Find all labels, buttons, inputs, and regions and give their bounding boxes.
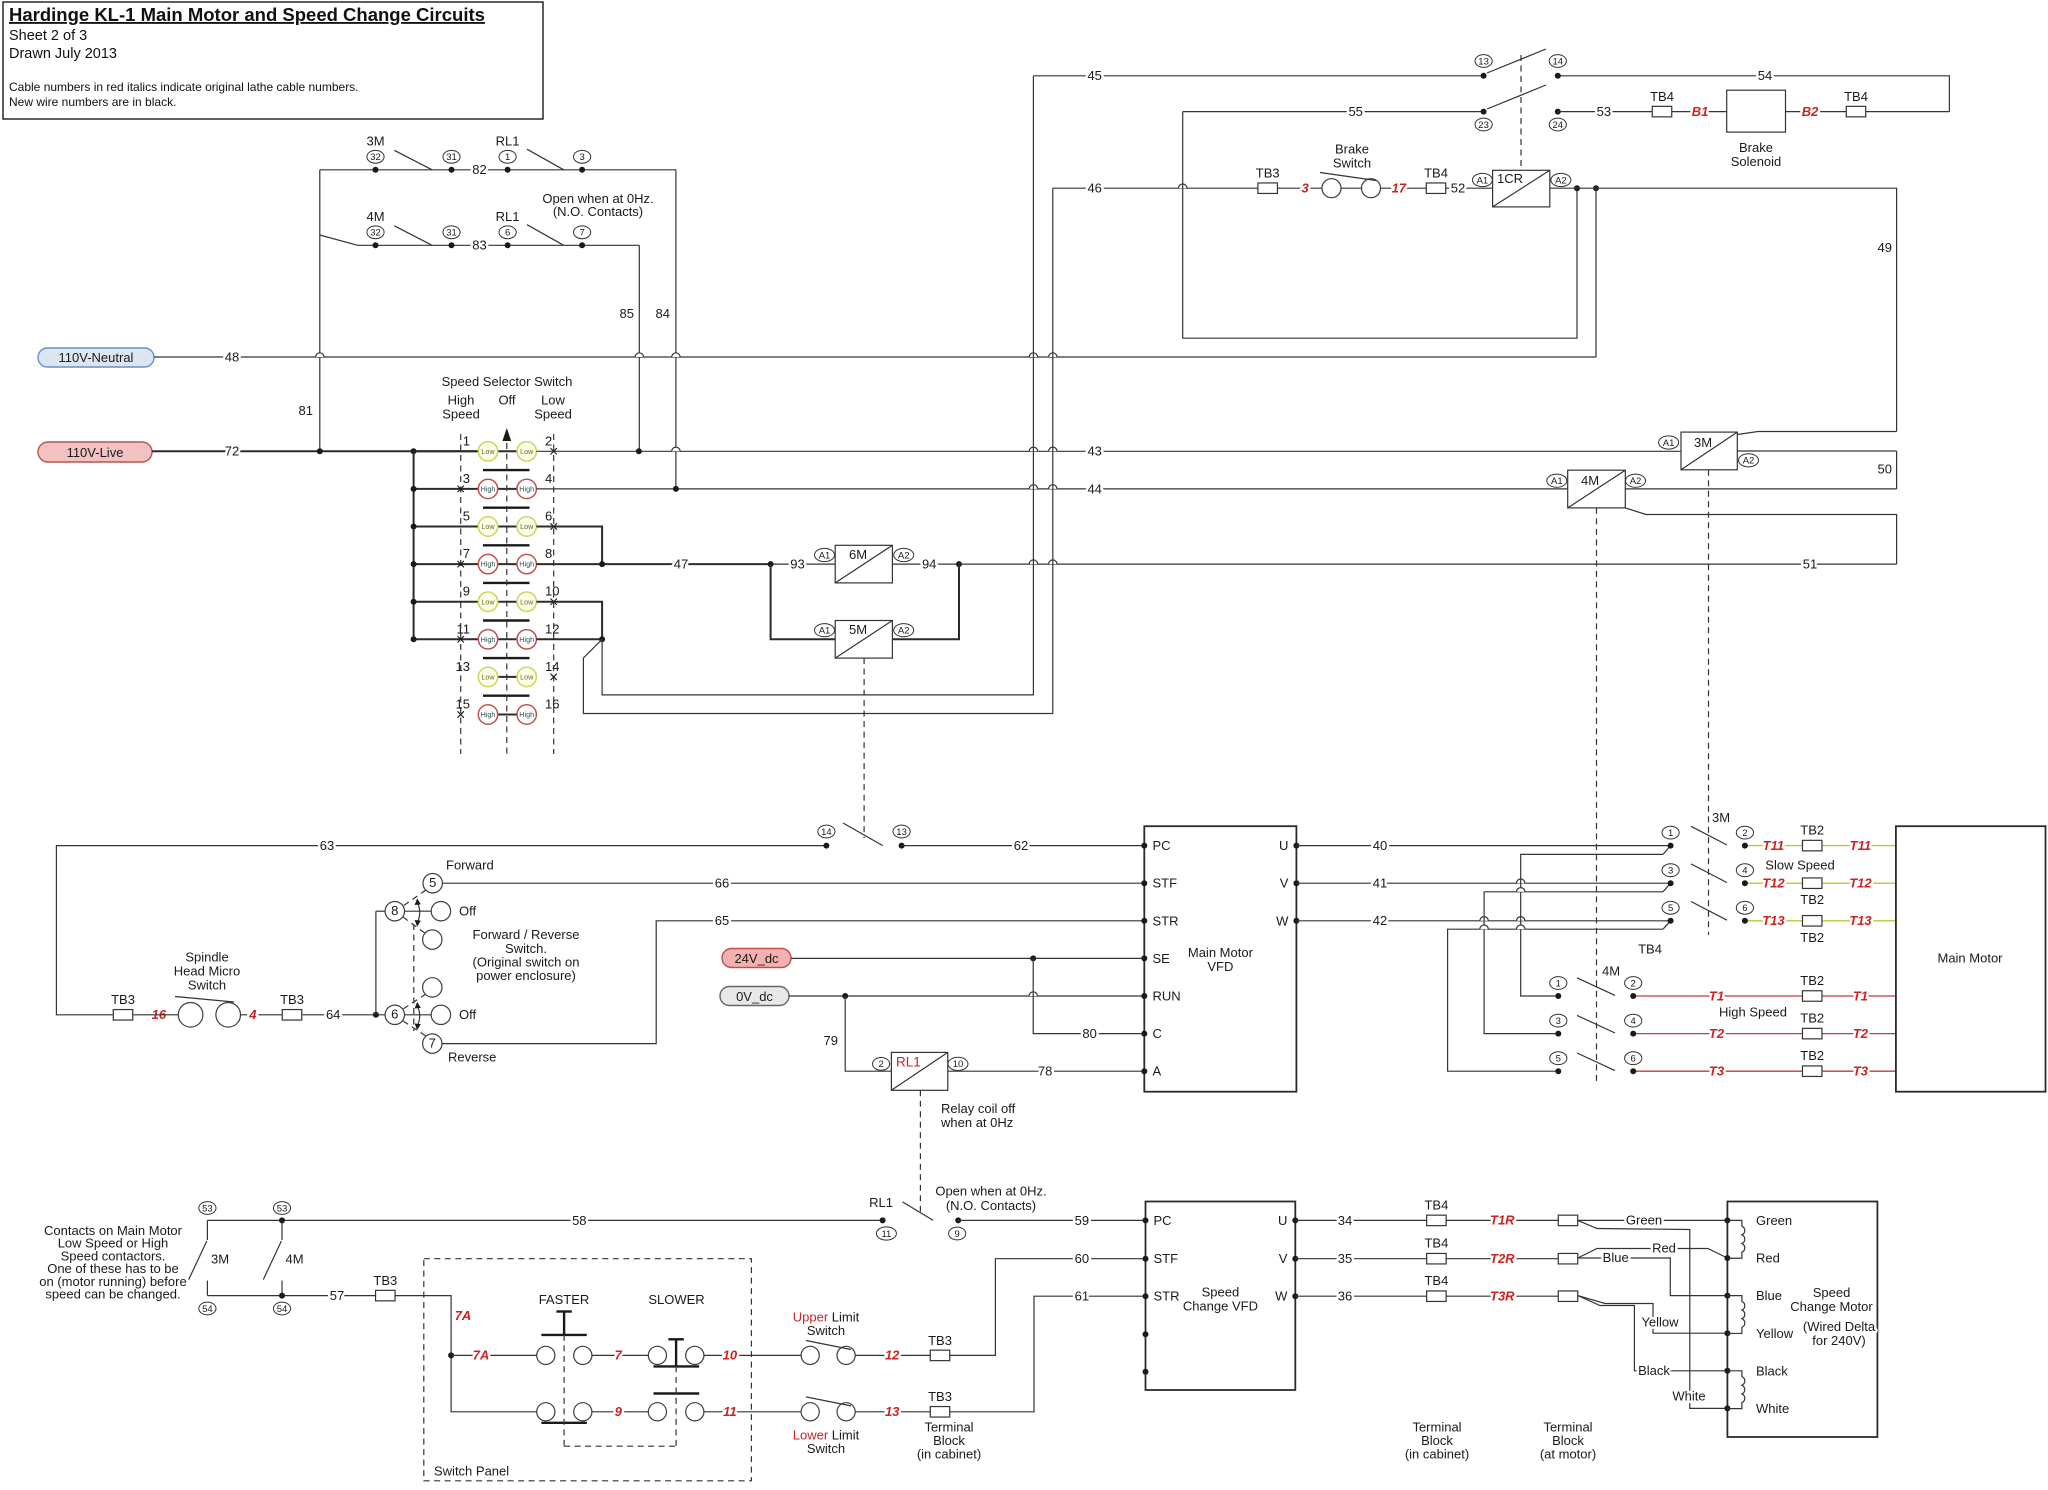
svg-text:Low: Low bbox=[520, 447, 534, 456]
wire 43 bbox=[536, 444, 1681, 459]
svg-text:High: High bbox=[481, 485, 496, 494]
svg-text:Speed: Speed bbox=[1202, 1285, 1240, 1300]
svg-text:62: 62 bbox=[1014, 838, 1028, 853]
svg-text:4M: 4M bbox=[1581, 473, 1599, 488]
wire 55 bbox=[1183, 104, 1484, 119]
svg-text:TB2: TB2 bbox=[1800, 973, 1824, 988]
cable 7A (to FASTER) bbox=[451, 1348, 537, 1363]
wire Green bbox=[1578, 1213, 1728, 1228]
svg-text:Blue: Blue bbox=[1756, 1288, 1782, 1303]
wire 4M A2 bbox=[1625, 488, 1896, 490]
contactor coil 5M + parallel loop bbox=[771, 564, 959, 658]
svg-text:U: U bbox=[1279, 838, 1288, 853]
svg-text:A: A bbox=[1153, 1064, 1162, 1079]
cable 13 bbox=[855, 1404, 930, 1419]
svg-text:4M: 4M bbox=[286, 1252, 304, 1267]
svg-text:54: 54 bbox=[277, 1304, 288, 1315]
wire Black bbox=[1578, 1296, 1728, 1378]
svg-text:Forward: Forward bbox=[446, 858, 494, 873]
wire 85 bbox=[620, 245, 640, 451]
1CR feedback loop bbox=[1183, 112, 1577, 339]
svg-text:STR: STR bbox=[1154, 1289, 1180, 1304]
contact 4M 5-6 bbox=[1550, 1052, 1642, 1074]
svg-text:32: 32 bbox=[370, 228, 381, 239]
svg-text:23: 23 bbox=[1478, 120, 1489, 131]
svg-text:110V-Neutral: 110V-Neutral bbox=[59, 350, 134, 365]
svg-text:10: 10 bbox=[545, 584, 559, 599]
svg-text:54: 54 bbox=[1758, 68, 1772, 83]
svg-text:T12: T12 bbox=[1849, 876, 1872, 891]
wire 61 riser bbox=[950, 1289, 1146, 1412]
svg-text:11: 11 bbox=[457, 621, 471, 636]
svg-text:TB4: TB4 bbox=[1638, 942, 1662, 957]
svg-text:80: 80 bbox=[1082, 1026, 1096, 1041]
terminal TB3 (upper limit) bbox=[928, 1333, 952, 1361]
svg-text:4: 4 bbox=[545, 471, 552, 486]
node 24V_dc bbox=[722, 949, 791, 968]
svg-text:(at motor): (at motor) bbox=[1540, 1447, 1596, 1462]
wire 41 bbox=[1296, 876, 1670, 891]
wire T1 (high speed) bbox=[1636, 988, 1896, 1003]
svg-text:11: 11 bbox=[723, 1404, 737, 1419]
wire 46 riser (to row12 node) bbox=[583, 188, 1052, 713]
svg-text:STF: STF bbox=[1154, 1251, 1179, 1266]
svg-text:TB2: TB2 bbox=[1800, 823, 1824, 838]
svg-text:54: 54 bbox=[202, 1304, 213, 1315]
node 0V_dc bbox=[720, 987, 789, 1006]
svg-text:Blue: Blue bbox=[1603, 1250, 1629, 1265]
wire 93 bbox=[768, 557, 836, 572]
wire SE bbox=[791, 955, 1144, 961]
svg-text:55: 55 bbox=[1348, 104, 1362, 119]
svg-text:A2: A2 bbox=[1630, 476, 1642, 487]
title block bbox=[3, 2, 543, 119]
svg-text:speed can be changed.: speed can be changed. bbox=[45, 1287, 180, 1302]
Speed Change Motor box bbox=[1724, 1202, 1877, 1438]
svg-text:V: V bbox=[1279, 1251, 1288, 1266]
contact RL1 (row 4M) bbox=[472, 209, 590, 253]
svg-text:RL1: RL1 bbox=[869, 1195, 893, 1210]
svg-text:T1: T1 bbox=[1853, 988, 1868, 1003]
contact 4M 1-2 bbox=[1550, 977, 1642, 999]
svg-text:STR: STR bbox=[1153, 913, 1179, 928]
selector contacts 3/4 (High) bbox=[411, 471, 553, 499]
spindle head micro switch bbox=[133, 950, 240, 1028]
svg-text:3: 3 bbox=[1668, 866, 1673, 877]
terminal TB2 (T12) bbox=[1800, 878, 1824, 907]
wire T11 (slow speed) bbox=[1748, 838, 1896, 853]
svg-text:TB4: TB4 bbox=[1844, 89, 1868, 104]
svg-text:Low: Low bbox=[481, 673, 495, 682]
svg-text:U: U bbox=[1278, 1213, 1287, 1228]
svg-text:Brake: Brake bbox=[1739, 140, 1773, 155]
svg-text:Forward / Reverse: Forward / Reverse bbox=[473, 927, 580, 942]
dashed RL1 actuator (down to lower contact) bbox=[919, 1090, 921, 1212]
wire 51 bbox=[959, 557, 1897, 572]
svg-text:T11: T11 bbox=[1850, 838, 1871, 853]
selector bridge bar bbox=[483, 657, 530, 659]
contact RL1 14-13 (PC line) bbox=[818, 823, 910, 849]
wire 48 riser to 1CR A2 bbox=[1595, 188, 1597, 357]
svg-text:15: 15 bbox=[456, 697, 470, 712]
svg-text:51: 51 bbox=[1803, 557, 1817, 572]
svg-text:14: 14 bbox=[821, 827, 832, 838]
cable T1R bbox=[1446, 1213, 1559, 1228]
selector bus vertical bbox=[413, 451, 415, 639]
svg-text:10: 10 bbox=[723, 1348, 738, 1363]
wire 44 bbox=[536, 481, 1567, 496]
terminal TB2 (T3) bbox=[1800, 1048, 1824, 1076]
contact 3M 3-4 bbox=[1662, 864, 1754, 886]
terminal TB3 (lower limit) bbox=[928, 1389, 952, 1417]
wire T3 (high speed) bbox=[1636, 1064, 1896, 1079]
svg-text:Spindle: Spindle bbox=[185, 950, 228, 965]
svg-text:1: 1 bbox=[463, 433, 470, 448]
svg-text:110V-Live: 110V-Live bbox=[67, 445, 124, 460]
svg-text:36: 36 bbox=[1338, 1289, 1352, 1304]
stub W to 4M-5 bbox=[1448, 921, 1671, 1071]
svg-text:A1: A1 bbox=[1477, 175, 1489, 186]
terminal TB4 (T1R) bbox=[1424, 1197, 1448, 1225]
cable T2R bbox=[1446, 1251, 1559, 1266]
svg-text:5M: 5M bbox=[849, 622, 867, 637]
svg-text:White: White bbox=[1672, 1389, 1705, 1404]
svg-text:A1: A1 bbox=[1663, 438, 1675, 449]
svg-text:Switch: Switch bbox=[807, 1323, 845, 1338]
wire 72 (110V-Live) bbox=[152, 444, 478, 459]
svg-text:TB4: TB4 bbox=[1650, 89, 1674, 104]
wire 54 bbox=[1558, 68, 1950, 111]
cable T3R bbox=[1446, 1289, 1559, 1304]
svg-text:(in cabinet): (in cabinet) bbox=[1405, 1447, 1469, 1462]
svg-text:52: 52 bbox=[1451, 180, 1465, 195]
svg-text:TB2: TB2 bbox=[1800, 1011, 1824, 1026]
svg-text:10: 10 bbox=[953, 1059, 964, 1070]
svg-text:85: 85 bbox=[620, 306, 634, 321]
FR switch note bbox=[473, 927, 580, 983]
wire Blue bbox=[1578, 1250, 1728, 1295]
svg-text:45: 45 bbox=[1087, 68, 1101, 83]
svg-text:24: 24 bbox=[1553, 120, 1564, 131]
svg-text:82: 82 bbox=[472, 162, 486, 177]
pushbutton FASTER (N.C. bottom) bbox=[537, 1403, 592, 1423]
svg-text:13: 13 bbox=[1478, 56, 1489, 67]
svg-text:31: 31 bbox=[446, 152, 457, 163]
wire row11-12 junction bbox=[536, 636, 605, 642]
wire White bbox=[1578, 1220, 1728, 1408]
wire 4M bottom to 51 bbox=[1625, 508, 1896, 564]
svg-text:7A: 7A bbox=[455, 1308, 472, 1323]
svg-text:High Speed: High Speed bbox=[1719, 1005, 1787, 1020]
svg-text:RL1: RL1 bbox=[496, 133, 520, 148]
terminal TB3 (spindle left) bbox=[111, 992, 135, 1020]
cable 7 bbox=[592, 1348, 648, 1363]
stub U to 4M-1 bbox=[1521, 846, 1671, 996]
svg-text:12: 12 bbox=[545, 621, 559, 636]
svg-text:W: W bbox=[1276, 913, 1289, 928]
svg-text:A1: A1 bbox=[1551, 476, 1563, 487]
svg-text:Black: Black bbox=[1756, 1363, 1788, 1378]
svg-text:FASTER: FASTER bbox=[539, 1292, 590, 1307]
motor winding 1 bbox=[1727, 1220, 1744, 1258]
wire 79 bbox=[824, 996, 892, 1071]
cable 10 bbox=[704, 1348, 801, 1363]
left bus vertical (wire 63) bbox=[56, 838, 826, 1015]
svg-text:41: 41 bbox=[1373, 876, 1387, 891]
svg-text:VFD: VFD bbox=[1207, 959, 1233, 974]
svg-text:Drawn July 2013: Drawn July 2013 bbox=[9, 46, 117, 62]
svg-text:8: 8 bbox=[391, 903, 398, 918]
wire 78 bbox=[948, 1064, 1145, 1079]
wire 45 bbox=[1033, 68, 1483, 83]
lower limit switch bbox=[793, 1397, 860, 1456]
wire 64 bbox=[303, 1007, 386, 1022]
svg-text:TB4: TB4 bbox=[1424, 1236, 1448, 1251]
svg-text:0V_dc: 0V_dc bbox=[736, 989, 773, 1004]
cable 9 bbox=[592, 1404, 648, 1419]
svg-text:(N.O. Contacts): (N.O. Contacts) bbox=[553, 204, 643, 219]
cable 11 bbox=[704, 1404, 801, 1419]
wire 84 bbox=[656, 170, 676, 489]
FR switch circle 7 (Reverse) bbox=[423, 1034, 497, 1065]
selector bridge bar bbox=[483, 507, 530, 509]
svg-text:(N.O. Contacts): (N.O. Contacts) bbox=[946, 1198, 1036, 1213]
wire T13 (slow speed) bbox=[1748, 913, 1896, 928]
svg-text:High: High bbox=[481, 710, 496, 719]
svg-text:Off: Off bbox=[459, 1007, 476, 1022]
terminal TB4 (right of solenoid) bbox=[1844, 89, 1868, 117]
svg-text:53: 53 bbox=[1597, 104, 1611, 119]
svg-text:60: 60 bbox=[1075, 1251, 1089, 1266]
wire 94 bbox=[892, 557, 962, 572]
svg-text:46: 46 bbox=[1087, 181, 1101, 196]
svg-text:7: 7 bbox=[429, 1035, 436, 1050]
wire 4M-RL1 row bbox=[320, 235, 640, 245]
pushbutton SLOWER (N.C. top) bbox=[648, 1292, 704, 1366]
contact 4M (top area) bbox=[366, 209, 460, 249]
wire 45 riser (to row12 node) bbox=[602, 76, 1033, 695]
svg-text:PC: PC bbox=[1154, 1213, 1172, 1228]
svg-text:Green: Green bbox=[1626, 1213, 1662, 1228]
svg-text:New wire numbers are in black.: New wire numbers are in black. bbox=[9, 95, 176, 109]
svg-text:High: High bbox=[519, 560, 534, 569]
note contacts text block bbox=[39, 1223, 186, 1302]
contact 3M aux (53-54) bbox=[189, 1202, 229, 1315]
terminal TB3 (spindle right) bbox=[280, 992, 304, 1020]
svg-text:42: 42 bbox=[1373, 913, 1387, 928]
svg-text:A1: A1 bbox=[819, 550, 831, 561]
svg-text:7A: 7A bbox=[473, 1348, 490, 1363]
svg-text:53: 53 bbox=[202, 1203, 213, 1214]
wire row9-10 down to row11 bbox=[536, 602, 602, 640]
svg-text:6: 6 bbox=[545, 509, 552, 524]
svg-text:49: 49 bbox=[1878, 240, 1892, 255]
svg-text:A1: A1 bbox=[819, 626, 831, 637]
svg-text:Yellow: Yellow bbox=[1756, 1326, 1794, 1341]
svg-text:TB2: TB2 bbox=[1800, 930, 1824, 945]
svg-text:3M: 3M bbox=[1712, 810, 1730, 825]
svg-text:6M: 6M bbox=[849, 547, 867, 562]
FR switch blank circle (lower) bbox=[423, 978, 442, 997]
svg-text:Red: Red bbox=[1756, 1251, 1780, 1266]
wire 48 (110V-Neutral) bbox=[154, 349, 1596, 364]
svg-text:4M: 4M bbox=[1602, 964, 1620, 979]
terminal TB2 (T13) bbox=[1800, 916, 1824, 945]
terminal TB3 (brake switch) bbox=[1256, 166, 1280, 194]
svg-text:16: 16 bbox=[545, 697, 559, 712]
svg-text:11: 11 bbox=[881, 1229, 891, 1240]
svg-text:78: 78 bbox=[1038, 1064, 1052, 1079]
svg-text:RUN: RUN bbox=[1153, 989, 1181, 1004]
svg-text:High: High bbox=[481, 560, 496, 569]
svg-text:White: White bbox=[1756, 1401, 1789, 1416]
wire T12 (slow speed) bbox=[1748, 876, 1896, 891]
svg-text:2: 2 bbox=[1631, 978, 1636, 989]
svg-text:TB2: TB2 bbox=[1800, 892, 1824, 907]
svg-text:35: 35 bbox=[1338, 1251, 1352, 1266]
svg-text:Speed Selector Switch: Speed Selector Switch bbox=[442, 374, 573, 389]
svg-text:7: 7 bbox=[463, 546, 470, 561]
svg-text:T12: T12 bbox=[1762, 876, 1785, 891]
svg-text:6: 6 bbox=[505, 228, 510, 239]
FR switch circle Off (lower) bbox=[405, 1005, 477, 1024]
contact 4M 3-4 bbox=[1550, 1014, 1642, 1036]
svg-text:Change VFD: Change VFD bbox=[1183, 1299, 1258, 1314]
wire 3M top to 49 bbox=[1737, 432, 1896, 435]
svg-text:W: W bbox=[1275, 1289, 1288, 1304]
FR switch circle 8 bbox=[385, 902, 404, 921]
svg-text:6: 6 bbox=[1631, 1054, 1636, 1065]
wire 35 bbox=[1295, 1251, 1426, 1266]
wire 60 riser bbox=[950, 1251, 1146, 1355]
svg-text:Switch: Switch bbox=[188, 978, 226, 993]
svg-text:(Wired Delta: (Wired Delta bbox=[1803, 1319, 1876, 1334]
svg-text:48: 48 bbox=[225, 349, 239, 364]
wire 62 bbox=[902, 838, 1145, 853]
relay coil 1CR bbox=[1472, 170, 1599, 207]
dashed SLOWER gang + link bbox=[564, 1366, 676, 1446]
svg-text:Speed: Speed bbox=[1813, 1285, 1851, 1300]
svg-text:Reverse: Reverse bbox=[448, 1050, 496, 1065]
selector bridge bar bbox=[483, 469, 530, 471]
contactor coil 3M bbox=[1659, 432, 1759, 470]
svg-text:79: 79 bbox=[824, 1033, 838, 1048]
svg-text:9: 9 bbox=[955, 1229, 960, 1240]
terminal TB2 (T1) bbox=[1800, 973, 1824, 1001]
svg-text:for 240V): for 240V) bbox=[1812, 1333, 1865, 1348]
VFD Main Motor box bbox=[1141, 826, 1299, 1091]
pushbutton FASTER (N.O. top) bbox=[537, 1292, 592, 1365]
svg-text:47: 47 bbox=[674, 557, 688, 572]
svg-text:4: 4 bbox=[1742, 866, 1747, 877]
svg-text:13: 13 bbox=[885, 1404, 900, 1419]
selector bridge bar bbox=[483, 544, 530, 546]
wire Yellow bbox=[1578, 1296, 1728, 1334]
wire Red bbox=[1578, 1241, 1728, 1258]
svg-text:Brake: Brake bbox=[1335, 142, 1369, 157]
svg-text:13: 13 bbox=[896, 827, 907, 838]
svg-text:2: 2 bbox=[1742, 828, 1747, 839]
svg-text:V: V bbox=[1280, 876, 1289, 891]
svg-text:5: 5 bbox=[429, 875, 436, 890]
note relay coil off bbox=[940, 1101, 1016, 1130]
terminal TB2 (T2) bbox=[1800, 1011, 1824, 1039]
svg-text:7: 7 bbox=[579, 228, 584, 239]
svg-text:9: 9 bbox=[463, 584, 470, 599]
svg-text:66: 66 bbox=[715, 876, 729, 891]
wire 49 bbox=[1596, 188, 1897, 431]
svg-text:TB2: TB2 bbox=[1800, 1048, 1824, 1063]
terminal TB4 (T3R) bbox=[1424, 1273, 1448, 1301]
wire 80 (SE to C) bbox=[1033, 958, 1144, 1041]
dashed link 5M to contact 14-13 bbox=[863, 658, 865, 838]
svg-text:Slow Speed: Slow Speed bbox=[1765, 858, 1834, 873]
VFD Speed Change box bbox=[1143, 1202, 1299, 1391]
svg-text:83: 83 bbox=[472, 238, 486, 253]
svg-text:Low: Low bbox=[481, 597, 495, 606]
svg-text:T2: T2 bbox=[1853, 1026, 1869, 1041]
svg-text:Main Motor: Main Motor bbox=[1937, 951, 2003, 966]
svg-text:Speed: Speed bbox=[442, 407, 480, 422]
wire 36 bbox=[1295, 1289, 1426, 1304]
svg-text:RL1: RL1 bbox=[896, 1055, 921, 1070]
svg-text:1: 1 bbox=[1668, 828, 1673, 839]
contact 4M aux (53-54) bbox=[263, 1202, 303, 1315]
svg-text:High: High bbox=[519, 710, 534, 719]
svg-text:Red: Red bbox=[1652, 1241, 1676, 1256]
svg-text:A2: A2 bbox=[1743, 456, 1755, 467]
svg-text:T11: T11 bbox=[1763, 838, 1784, 853]
cable 4 bbox=[241, 1007, 283, 1022]
wire 66 bbox=[442, 876, 1144, 891]
svg-text:Head Micro: Head Micro bbox=[174, 964, 240, 979]
forward/reverse switch bbox=[376, 890, 426, 1036]
svg-text:Open when at 0Hz.: Open when at 0Hz. bbox=[935, 1184, 1046, 1199]
svg-text:Off: Off bbox=[459, 904, 476, 919]
wire 57 bbox=[207, 1288, 376, 1303]
terminal block at motor (T3R) bbox=[1558, 1291, 1578, 1302]
dashed 1CR actuator bbox=[1520, 55, 1522, 170]
svg-text:Low: Low bbox=[520, 522, 534, 531]
Main Motor box bbox=[1896, 826, 2046, 1091]
svg-text:Yellow: Yellow bbox=[1641, 1315, 1679, 1330]
svg-text:Switch Panel: Switch Panel bbox=[434, 1464, 509, 1479]
FR switch circle 5 (Forward) bbox=[423, 858, 494, 893]
svg-text:81: 81 bbox=[299, 403, 313, 418]
svg-text:A2: A2 bbox=[1555, 175, 1567, 186]
svg-text:Off: Off bbox=[498, 393, 515, 408]
selector bridge bar bbox=[483, 582, 530, 584]
wire RUN bbox=[789, 992, 1144, 999]
svg-text:4: 4 bbox=[1631, 1016, 1636, 1027]
svg-text:High: High bbox=[448, 393, 475, 408]
selector bridge bar bbox=[483, 695, 530, 697]
svg-text:Sheet 2 of 3: Sheet 2 of 3 bbox=[9, 28, 87, 44]
svg-text:53: 53 bbox=[277, 1203, 288, 1214]
svg-text:1: 1 bbox=[505, 152, 510, 163]
wire 81 vertical bbox=[299, 170, 320, 452]
svg-text:17: 17 bbox=[1392, 181, 1407, 196]
svg-text:3M: 3M bbox=[211, 1252, 229, 1267]
wire 34 bbox=[1295, 1213, 1426, 1228]
selector contacts 15/16 (High) bbox=[456, 697, 560, 725]
contact 1CR 13-14 bbox=[1475, 49, 1566, 79]
svg-text:Change Motor: Change Motor bbox=[1790, 1299, 1873, 1314]
svg-text:C: C bbox=[1153, 1026, 1162, 1041]
svg-text:9: 9 bbox=[615, 1404, 623, 1419]
contact RL1 (row 3M) bbox=[472, 133, 590, 177]
svg-text:14: 14 bbox=[545, 659, 559, 674]
